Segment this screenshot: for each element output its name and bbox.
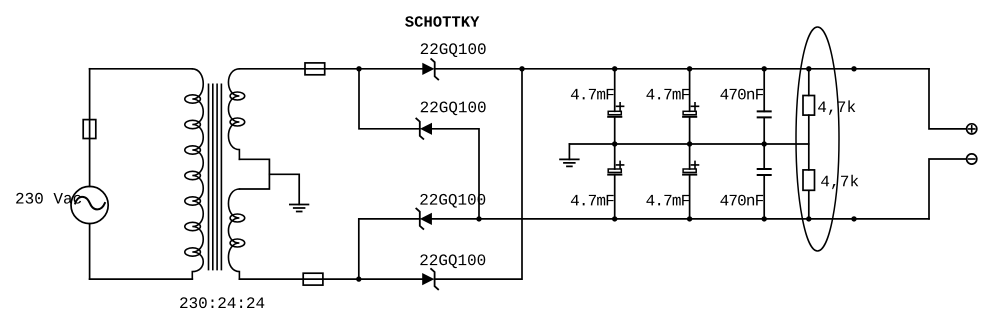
node dots resistor column <box>806 66 811 221</box>
wire primary left vertical lower <box>89 224 91 280</box>
transformer T1 core <box>209 84 222 269</box>
ellipse highlight around resistors <box>796 27 839 251</box>
capacitor C1 4.7mF wires <box>614 69 616 144</box>
node junction top fuse <box>356 66 361 71</box>
ground mid rail stem <box>568 144 570 159</box>
capacitor C4 4.7mF wires <box>689 144 691 219</box>
resistor R2 <box>803 170 815 190</box>
label 4.7mF C2 <box>571 195 614 206</box>
wire minus rail left segment <box>359 218 420 220</box>
node dots output stubs <box>851 66 856 221</box>
wire top rail right segment <box>435 68 929 70</box>
capacitor C6 470nF wires <box>763 144 765 219</box>
transformer T1 secondary bottom loop crossovers <box>230 214 245 247</box>
label 4,7k R1 <box>818 100 855 114</box>
transformer T1 primary loop crossovers <box>185 95 201 256</box>
capacitor C1 polarity plus <box>617 103 624 110</box>
wire top rail left segment <box>239 68 422 70</box>
capacitor C5 470nF wires <box>763 69 765 144</box>
transformer T1 secondary top winding <box>228 69 239 160</box>
label 22GQ100 D3 <box>420 194 485 208</box>
node dots column 2 <box>687 66 692 221</box>
wire from top junction down to D2 <box>359 69 420 129</box>
label 4.7mF C3 <box>646 89 689 100</box>
label 22GQ100 D4 <box>420 254 485 268</box>
capacitor C3 polarity plus <box>692 103 699 110</box>
label 230 Vac <box>16 193 81 204</box>
wire center tap to ground <box>269 174 299 204</box>
AC source V1 <box>71 186 108 223</box>
label 230:24:24 <box>180 297 264 308</box>
capacitor C2 4.7mF wires <box>614 144 616 219</box>
wire from bottom junction up to D3 rail <box>358 219 360 279</box>
capacitor C4 polarity plus <box>692 161 699 168</box>
wire mid rail <box>569 143 808 145</box>
terminal minus <box>967 154 977 164</box>
label 22GQ100 D1 <box>421 43 486 57</box>
wire primary top horizontal <box>90 68 193 70</box>
node junction bottom fuse <box>356 276 361 281</box>
diode D3 <box>420 213 432 225</box>
transformer T1 primary winding <box>192 69 203 279</box>
capacitor C1 plates <box>608 111 621 114</box>
capacitor C3 plates <box>683 111 696 114</box>
wire D4 cathode up to plus rail <box>435 69 522 279</box>
capacitor C2 polarity plus <box>617 161 624 168</box>
node dots column 3 <box>762 66 767 221</box>
label 470nF C5 <box>720 89 763 100</box>
fuse F1 <box>83 120 96 139</box>
diode D2 <box>420 123 432 135</box>
label 470nF C6 <box>720 195 763 206</box>
label 22GQ100 D2 <box>421 102 486 116</box>
wire primary bottom horizontal <box>90 278 193 280</box>
fuse F2 <box>305 63 325 75</box>
AC source sine wave <box>75 197 105 210</box>
capacitor C2 plates <box>608 169 621 172</box>
wire bottom branch horizontal <box>239 278 422 280</box>
node junction D2 anode on minus rail <box>476 216 481 221</box>
capacitor C6 plates <box>758 169 771 175</box>
terminal plus <box>967 124 977 134</box>
diode D1 <box>422 63 434 75</box>
diode D4 <box>422 273 434 285</box>
label 4.7mF C1 <box>571 89 614 100</box>
capacitor C4 plates <box>683 169 696 172</box>
transformer T1 secondary bottom winding <box>228 189 239 279</box>
capacitor C3 4.7mF wires <box>689 69 691 144</box>
transformer T1 secondary top loop crossovers <box>230 92 245 126</box>
resistor R1 <box>803 96 815 116</box>
wire plus output <box>929 69 967 129</box>
node junction D1-D4 cathodes <box>519 66 524 71</box>
wire primary left vertical upper <box>89 69 91 187</box>
label SCHOTTKY <box>405 16 479 27</box>
node dots column 1 <box>612 66 617 221</box>
fuse F3 <box>303 273 323 285</box>
wire minus rail right segment <box>432 218 929 220</box>
capacitor C5 plates <box>758 111 771 117</box>
label 4.7mF C4 <box>646 195 689 206</box>
wire D2 anode to minus rail <box>432 129 479 219</box>
wire minus output <box>929 159 967 219</box>
label 4,7k R2 <box>821 175 858 189</box>
ground mid rail <box>560 159 579 166</box>
ground center tap <box>290 205 309 212</box>
wire center tap upper <box>239 159 269 189</box>
resistor column wires <box>808 69 810 219</box>
